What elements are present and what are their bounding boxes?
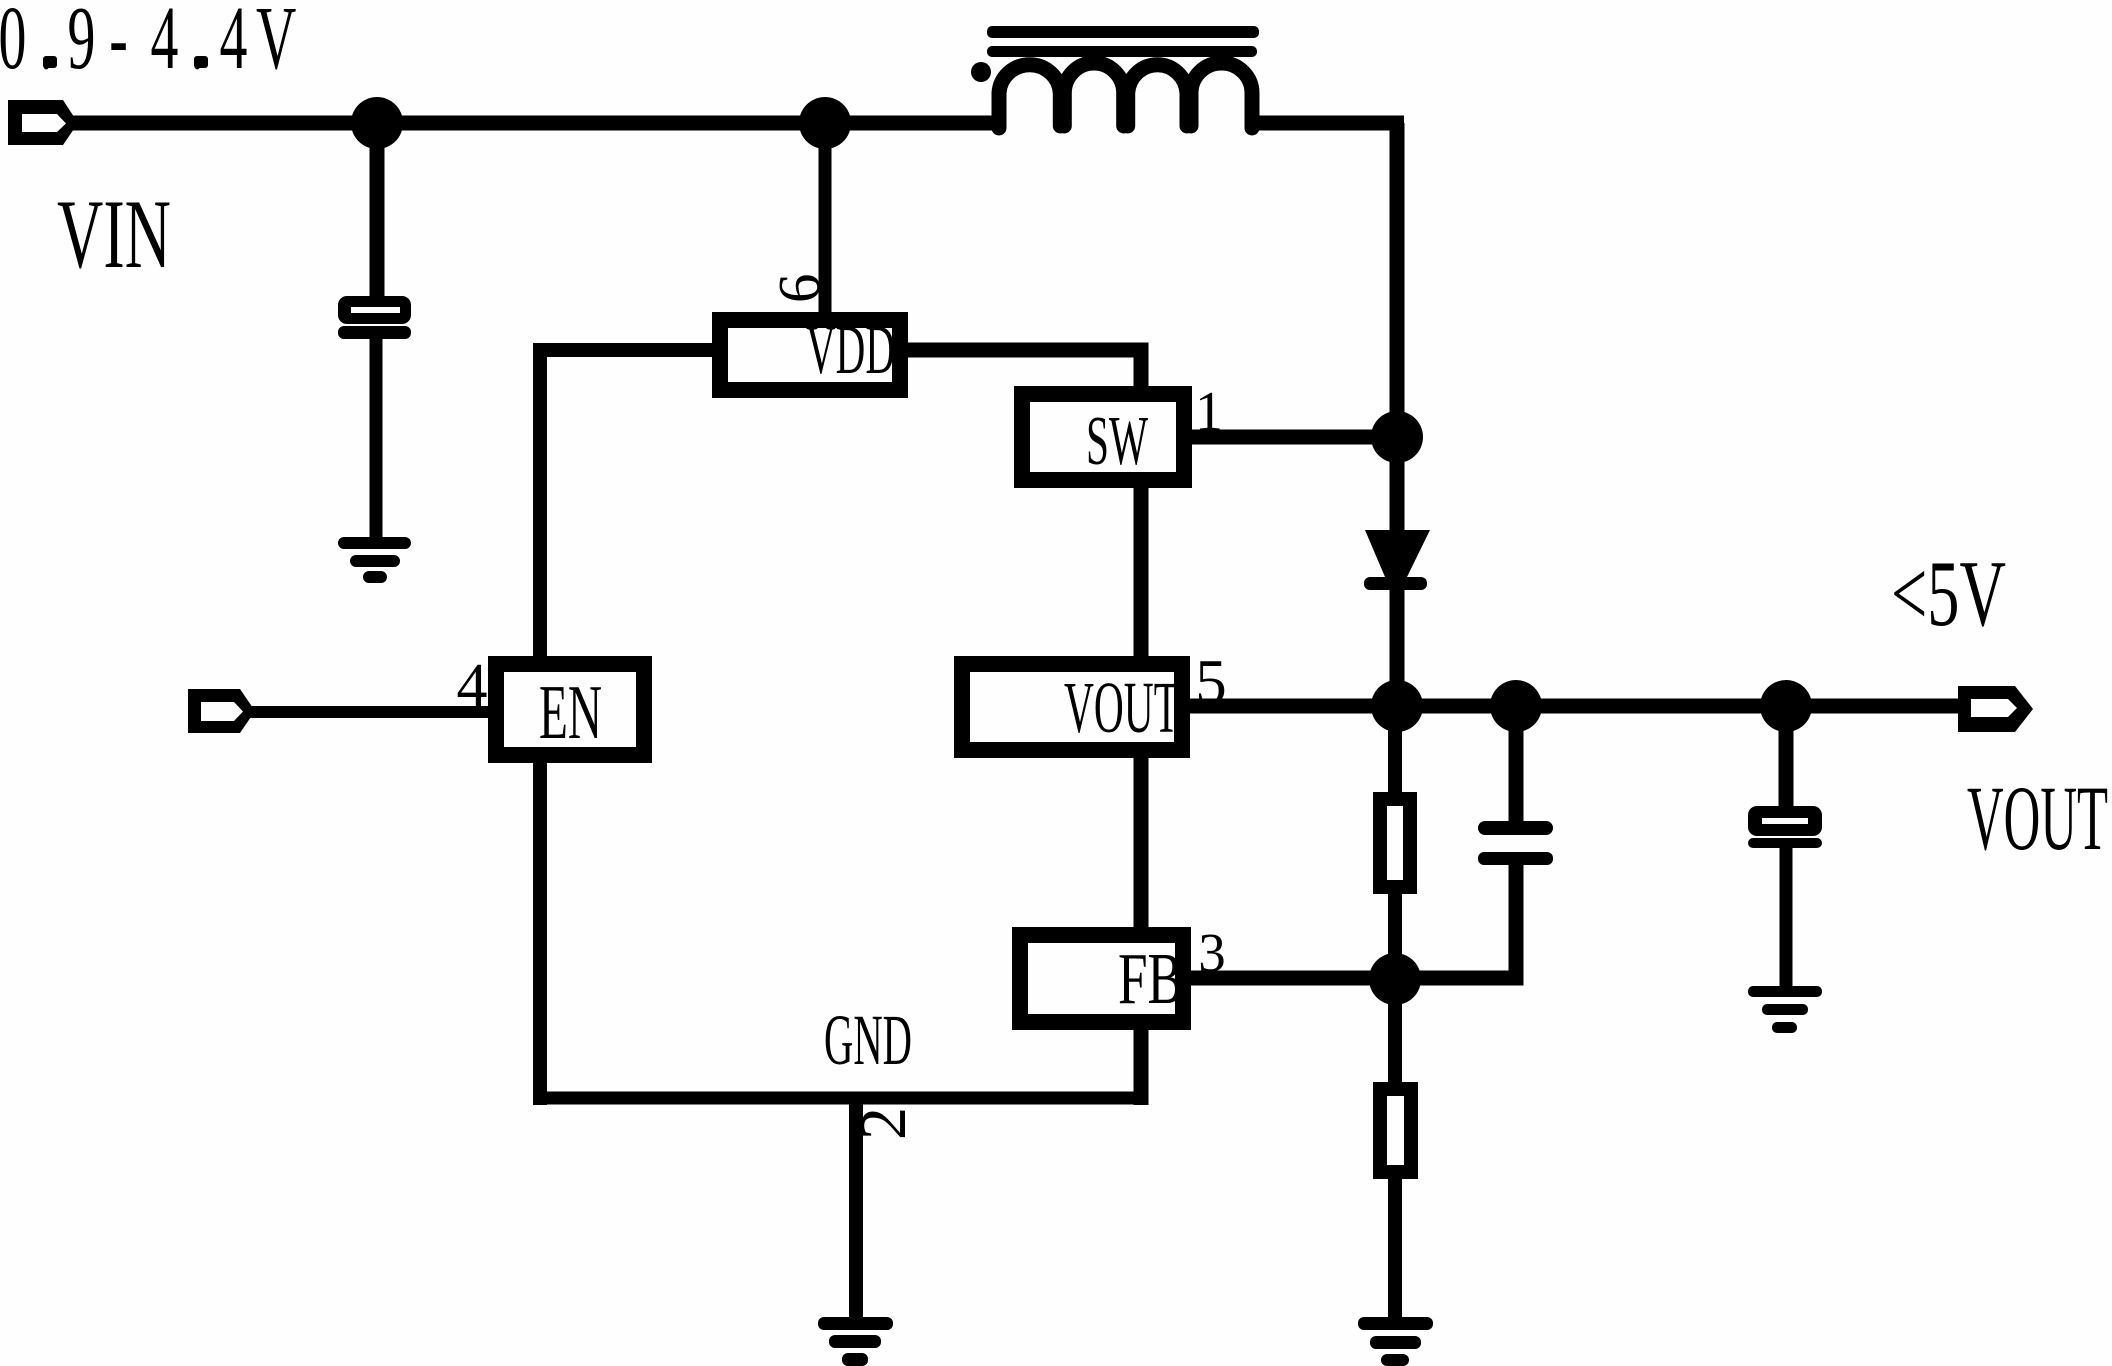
- svg-text:VDD: VDD: [806, 312, 895, 389]
- node junction FB: [1369, 953, 1421, 1005]
- IC pin box VOUT: [962, 664, 1182, 750]
- svg-text:6: 6: [766, 274, 832, 304]
- IC pin box VDD: [720, 312, 900, 390]
- diode D1: [1364, 530, 1430, 590]
- ground C1: [338, 537, 411, 583]
- wire C1 down: [370, 339, 383, 539]
- wire GND bottom run: [540, 1092, 1141, 1105]
- wire C3 top: [1779, 706, 1794, 811]
- IC pin box FB: [1020, 935, 1183, 1022]
- wire C1 up: [370, 123, 385, 299]
- ground C3: [1748, 986, 1822, 1033]
- wire VIN horizontal top: [70, 116, 1005, 131]
- wire diode anode: [1390, 437, 1405, 532]
- resistor R2: [1380, 1089, 1411, 1172]
- resistor R1: [1380, 799, 1410, 887]
- node junction VOUT/R1: [1371, 680, 1423, 732]
- port EN terminal: [188, 689, 255, 733]
- svg-text:GND: GND: [824, 1000, 912, 1080]
- wire C2 bottom to FB node: [1395, 865, 1516, 978]
- node junction VOUT/C2: [1490, 680, 1542, 732]
- wire EN pin: [248, 706, 488, 718]
- node junction VOUT/C3: [1760, 680, 1812, 732]
- node junction VIN/VDD: [799, 97, 851, 149]
- inductor L1 phase dot: [971, 62, 991, 82]
- wire VDD left pin + left rail: [540, 350, 713, 660]
- wire FB box bottom to GND wire: [1134, 1022, 1149, 1105]
- wire inductor right to corner: [1248, 116, 1404, 131]
- svg-text:VOUT: VOUT: [1064, 667, 1179, 748]
- wire C3 bottom: [1780, 848, 1793, 988]
- wire VOUT pin to output: [1190, 699, 1965, 714]
- port VIN terminal: [8, 100, 78, 145]
- svg-text:VIN: VIN: [57, 180, 171, 289]
- wire R2 bottom: [1388, 1179, 1402, 1319]
- net label 0.9-4.4V: [0, 0, 296, 88]
- wire SW pin right: [1192, 430, 1397, 445]
- wire VOUT box bottom to FB top: [1134, 758, 1149, 928]
- capacitor C1: [338, 296, 411, 339]
- wire SW bottom to VOUT top: [1134, 488, 1149, 658]
- wire R2 top: [1388, 979, 1402, 1089]
- IC pin box SW: [1022, 394, 1184, 480]
- wire GND stub down: [849, 1098, 863, 1319]
- capacitor C2: [1478, 821, 1553, 865]
- wire EN rail down: [533, 763, 547, 1105]
- wire VDD right pin to SW top: [907, 350, 1141, 390]
- wire diode cathode: [1390, 590, 1405, 710]
- wire FB pin right: [1191, 971, 1401, 986]
- wire C2 top: [1509, 706, 1524, 821]
- inductor L1 winding: [999, 63, 1252, 128]
- svg-text:FB: FB: [1118, 938, 1183, 1019]
- port VOUT terminal: [1958, 686, 2033, 732]
- inductor L1 core bar 2: [987, 46, 1257, 57]
- svg-text:SW: SW: [1086, 403, 1148, 480]
- wire R1 bottom: [1388, 894, 1402, 979]
- wire right rail down from top: [1390, 123, 1405, 443]
- inductor L1 core bar 1: [987, 26, 1259, 38]
- IC pin box EN: [496, 664, 644, 755]
- ground GND pin: [818, 1317, 893, 1366]
- node junction VIN/C1: [351, 97, 403, 149]
- wire R1 top: [1388, 706, 1402, 796]
- node junction SW/diode: [1371, 411, 1423, 463]
- svg-text:EN: EN: [539, 669, 602, 755]
- svg-text:<5V: <5V: [1891, 542, 2006, 646]
- capacitor C3: [1748, 806, 1822, 848]
- svg-text:VOUT: VOUT: [1967, 767, 2108, 869]
- ground R2: [1358, 1317, 1433, 1366]
- wire VDD up: [819, 123, 832, 315]
